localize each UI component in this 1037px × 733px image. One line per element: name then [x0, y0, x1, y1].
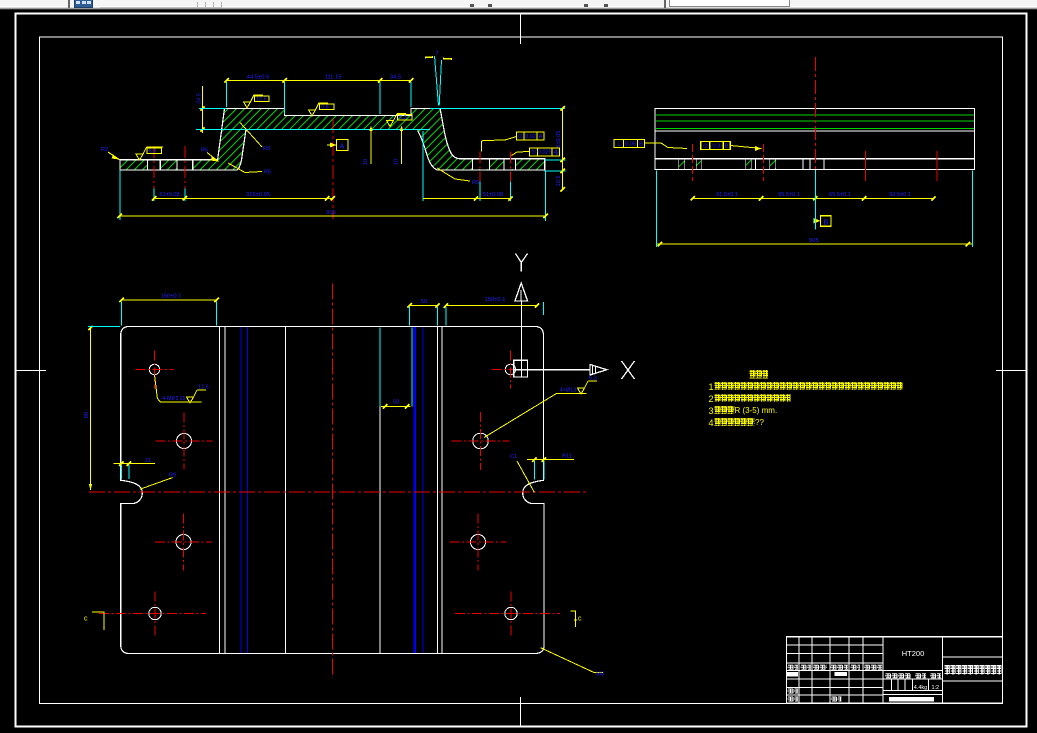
svg-text:R5: R5 [472, 180, 479, 186]
svg-text:93.5±0.1: 93.5±0.1 [889, 192, 911, 198]
svg-text:915: 915 [326, 210, 336, 216]
svg-text:4.4kg: 4.4kg [914, 685, 927, 691]
svg-text:34.5: 34.5 [390, 74, 401, 80]
svg-text:B: B [725, 143, 729, 149]
svg-text:⊥: ⊥ [616, 140, 621, 147]
svg-text:315±0.05: 315±0.05 [246, 192, 270, 198]
svg-text:⊙: ⊙ [518, 134, 523, 140]
svg-text:0.025: 0.025 [537, 150, 552, 156]
svg-text:65.5±0.1: 65.5±0.1 [829, 192, 851, 198]
svg-text:24.5: 24.5 [197, 93, 203, 104]
svg-text:1:2: 1:2 [931, 685, 939, 691]
svg-text:4×Ø13: 4×Ø13 [560, 388, 577, 394]
svg-text:C1: C1 [510, 454, 517, 460]
svg-text:12.5: 12.5 [256, 96, 267, 102]
svg-text:6.3: 6.3 [589, 376, 597, 382]
svg-text:⊙: ⊙ [531, 150, 536, 156]
svg-text:B: B [639, 141, 643, 147]
svg-text:10: 10 [363, 159, 369, 165]
svg-text:A: A [340, 143, 345, 150]
svg-text:905: 905 [809, 238, 819, 244]
svg-text:51±0.08: 51±0.08 [483, 192, 503, 198]
svg-text:80: 80 [84, 412, 90, 418]
svg-text:7: 7 [435, 51, 438, 57]
svg-text:R3: R3 [263, 146, 270, 152]
svg-text:0.8: 0.8 [321, 104, 329, 110]
svg-text:0.02: 0.02 [525, 134, 536, 140]
svg-text:R9: R9 [169, 472, 176, 478]
svg-text:6.3: 6.3 [149, 149, 157, 155]
svg-text:??: ?? [755, 418, 764, 427]
svg-text:c: c [578, 616, 582, 623]
svg-text:0.05: 0.05 [625, 141, 636, 147]
svg-text:10: 10 [394, 159, 400, 165]
svg-text:10.5: 10.5 [556, 176, 562, 187]
svg-text:B: B [823, 219, 828, 226]
svg-text:6.3: 6.3 [399, 115, 407, 121]
svg-text:44.5±0.5: 44.5±0.5 [247, 74, 270, 80]
svg-text:HT200: HT200 [902, 649, 925, 658]
svg-text:150±0.1: 150±0.1 [161, 294, 182, 300]
svg-text:51±0.08: 51±0.08 [159, 192, 179, 198]
svg-text:A: A [539, 134, 543, 140]
svg-text:111.15: 111.15 [325, 74, 342, 80]
svg-text:50: 50 [393, 400, 399, 406]
svg-text:R2: R2 [101, 147, 108, 153]
svg-text:150±0.1: 150±0.1 [485, 297, 506, 303]
svg-text:R (3-5) mm.: R (3-5) mm. [735, 406, 778, 415]
svg-text:91.5±0.1: 91.5±0.1 [716, 192, 738, 198]
svg-text:c: c [84, 616, 88, 623]
svg-text:⊙: ⊙ [703, 143, 708, 149]
svg-text:12.5: 12.5 [198, 385, 209, 391]
svg-text:50: 50 [421, 299, 427, 305]
svg-text:M8: M8 [596, 672, 604, 678]
svg-text:0.3: 0.3 [712, 143, 720, 149]
svg-text:95.5±0.1: 95.5±0.1 [778, 192, 800, 198]
svg-text:R5: R5 [264, 170, 271, 176]
svg-text:4-M8↧15: 4-M8↧15 [162, 395, 186, 402]
svg-text:21: 21 [145, 458, 151, 464]
svg-text:R11: R11 [562, 454, 572, 460]
svg-text:A: A [554, 150, 558, 156]
